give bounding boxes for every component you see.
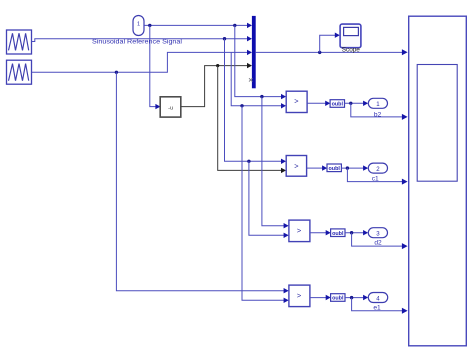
svg-text:oubl: oubl	[332, 231, 344, 237]
outport oval 2	[368, 163, 387, 173]
wire carrier A to mux input2 (sinusoidal reference)	[32, 36, 253, 42]
wire sinus ref vertical branch to comparator2 input1	[225, 39, 287, 164]
wire comparator3 to conversion3	[310, 230, 331, 235]
outport oval 1	[368, 98, 387, 108]
svg-text:-u: -u	[168, 106, 173, 112]
relational operator comparator 3	[289, 220, 310, 242]
data type conversion 3	[331, 229, 345, 237]
svg-text:b2: b2	[374, 112, 382, 119]
wire conversion4 to outport4	[345, 295, 368, 300]
svg-text:1: 1	[376, 101, 380, 108]
subsystem block	[409, 16, 467, 346]
wire branch to subsystem input2	[351, 103, 408, 120]
wire branch up to scope	[320, 33, 340, 53]
data type conversion 4	[331, 294, 345, 302]
svg-text:oubl: oubl	[332, 296, 344, 302]
wire conversion1 to outport1	[345, 101, 369, 106]
svg-text:Scope: Scope	[342, 46, 361, 53]
wire branch to comparator3 input2	[249, 161, 289, 238]
wire constant1 to mux input1	[144, 23, 252, 28]
svg-text:>: >	[297, 226, 301, 235]
data type conversion 1	[330, 100, 344, 108]
mux block	[252, 16, 256, 88]
svg-text:3: 3	[376, 231, 380, 238]
unary minus block U1	[160, 97, 181, 117]
repeating sequence carrier block A	[7, 30, 32, 54]
constant block 1	[133, 16, 144, 36]
wire branch to subsystem input3	[347, 168, 407, 185]
wire branch to subsystem input4	[352, 233, 408, 249]
dark wire branch down to comparator2 input2	[218, 66, 286, 174]
wire constant1 branch down to unary minus	[150, 25, 161, 109]
svg-text:1: 1	[137, 22, 140, 28]
stray cursor mark x	[249, 78, 252, 81]
wire branch to comparator4 input2	[242, 106, 289, 303]
repeating sequence carrier block B	[7, 60, 32, 84]
wire carrier B to mux input3	[32, 50, 253, 74]
relational operator comparator 4	[289, 285, 310, 307]
wire carrier B branch down to comparator4 input1	[116, 72, 288, 293]
outport oval 4	[368, 293, 387, 303]
wire branch to subsystem input5	[352, 298, 408, 314]
svg-text:2: 2	[376, 166, 380, 173]
dark wire unary minus to mux input4	[181, 63, 252, 107]
wire comparator4 to conversion4	[310, 295, 331, 300]
data type conversion 2	[327, 164, 341, 172]
wire mux output to subsystem input1	[256, 49, 408, 55]
svg-text:>: >	[294, 97, 298, 106]
relational operator comparator 1	[286, 91, 307, 112]
wire carrier B vertical branch to comparator1 input2	[231, 52, 286, 108]
wire constant vertical branch to comparator1 input1	[235, 25, 286, 99]
wire conversion3 to outport3	[345, 230, 368, 235]
relational operator comparator 2	[286, 156, 306, 177]
svg-text:oubl: oubl	[332, 102, 344, 108]
outport oval 3	[368, 228, 387, 238]
wire conversion2 to outport2	[341, 165, 368, 170]
svg-text:Sinusoidal Reference Signal: Sinusoidal Reference Signal	[92, 38, 183, 45]
wire comparator1 to conversion1	[307, 101, 330, 106]
scope block	[340, 24, 361, 48]
svg-text:>: >	[294, 161, 298, 170]
svg-text:oubl: oubl	[329, 166, 341, 172]
wire branch to comparator3 input1	[262, 97, 289, 229]
wire comparator2 to conversion2	[307, 165, 328, 170]
svg-text:>: >	[297, 291, 301, 300]
